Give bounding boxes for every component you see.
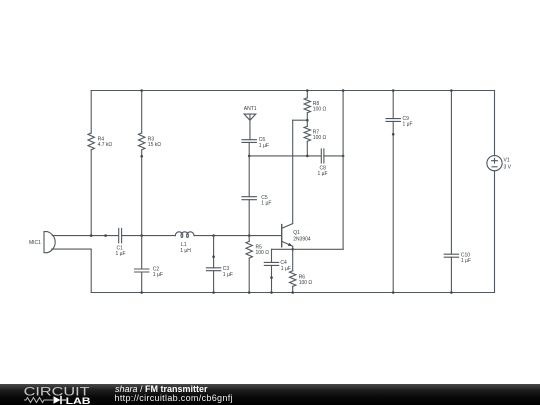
capacitor C1 (119, 228, 122, 242)
wire C3 branch (213, 236, 215, 293)
node L1/C3 junction (212, 234, 215, 237)
resistor R8 (304, 98, 310, 113)
svg-text:1 µF: 1 µF (223, 272, 233, 278)
wire feedback vertical (342, 91, 344, 250)
svg-text:ANT1: ANT1 (244, 106, 257, 112)
node signal/R3 crossing (140, 234, 143, 237)
capacitor C2 (135, 269, 149, 272)
wire C10 branch (450, 91, 452, 293)
node R3 top (140, 89, 143, 92)
svg-text:100 Ω: 100 Ω (256, 250, 270, 256)
wire mic top lead (52, 235, 118, 237)
svg-text:1 µF: 1 µF (259, 143, 269, 149)
svg-text:1 µF: 1 µF (153, 272, 163, 278)
resistor R4 (88, 133, 94, 150)
wire C8 to feedback vertical (324, 155, 343, 157)
svg-text:V1: V1 (504, 158, 510, 164)
wire C9 branch (392, 91, 394, 293)
node C4 bottom pin (270, 276, 273, 279)
wire C1 to L1 (122, 235, 176, 237)
capacitor C10 (444, 254, 458, 257)
wire emitter left to C4 (272, 248, 293, 250)
node feedback top (342, 89, 345, 92)
wire left vertical lower (R4 to mic node) (90, 150, 92, 236)
svg-text:1 µF: 1 µF (261, 200, 271, 206)
node mic top lead / R4 junction (90, 234, 93, 237)
node C9 bottom rail (392, 291, 395, 294)
microphone MIC1 (44, 232, 55, 253)
wire emitter right to feedback vertical (293, 248, 343, 250)
svg-text:LAB: LAB (66, 396, 91, 405)
wire R3 to signal node (141, 150, 143, 236)
svg-text:1 µF: 1 µF (318, 171, 328, 177)
capacitor C8 (321, 149, 324, 163)
node C3 top pin (212, 255, 215, 258)
svg-text:100 Ω: 100 Ω (299, 280, 313, 286)
svg-text:Q1: Q1 (293, 230, 300, 236)
node C6 bottom / bias wire junction (248, 155, 251, 158)
transistor Q1 (282, 224, 293, 250)
node R7 bottom (306, 155, 309, 158)
node C10 bottom rail (450, 291, 453, 294)
wire C6 to C5 (248, 142, 250, 196)
node C3 bottom (212, 291, 215, 294)
circuitlab logo (24, 384, 91, 405)
node C10 top (450, 89, 453, 92)
node R6 bottom (291, 291, 294, 294)
resistor R6 (290, 271, 296, 287)
wire C5 to signal node (248, 200, 250, 236)
svg-text:2N3904: 2N3904 (293, 236, 311, 242)
svg-text:100 Ω: 100 Ω (313, 135, 327, 141)
wire L1 to Q1 base (194, 235, 281, 237)
wire R5 to bottom rail (248, 258, 250, 292)
node emitter junction (291, 248, 294, 251)
node C2 bottom (140, 291, 143, 294)
wire bias rail C6 to C8 (249, 155, 321, 157)
wire collector vertical (292, 120, 294, 223)
wire R7 to bias rail (306, 141, 308, 156)
svg-text:1 µF: 1 µF (281, 266, 291, 272)
node R8 top (306, 89, 309, 92)
wire left vertical upper (top rail to R4) (90, 91, 92, 134)
wire C4 branch (271, 249, 273, 292)
capacitor C3 (206, 268, 220, 271)
wire mic bottom lead (52, 249, 91, 292)
inductor L1 (175, 232, 194, 238)
wire R6 branch (292, 249, 294, 270)
resistor R5 (246, 241, 252, 258)
resistor R7 (304, 126, 310, 141)
svg-text:100 Ω: 100 Ω (313, 107, 327, 113)
wire top rail (91, 90, 494, 92)
svg-text:3 V: 3 V (504, 164, 512, 170)
wire signal node to R5 (248, 236, 250, 242)
wire V1 branch bottom (494, 171, 496, 293)
wire R3 branch top (141, 91, 143, 134)
capacitor C4 (264, 262, 278, 265)
svg-text:1 µF: 1 µF (403, 122, 413, 128)
antenna ANT1 (244, 114, 256, 140)
svg-text:MIC1: MIC1 (29, 240, 41, 246)
svg-text:1 µH: 1 µH (180, 248, 191, 254)
resistor R3 (139, 133, 145, 150)
capacitor C9 (386, 119, 400, 122)
svg-text:1 µF: 1 µF (116, 251, 126, 257)
node R8/R7/collector junction (306, 119, 309, 122)
svg-text:15 kΩ: 15 kΩ (148, 142, 161, 148)
wire bottom rail (91, 292, 494, 294)
node C9 bottom pin (392, 133, 395, 136)
node C8/feedback junction (342, 155, 345, 158)
node signal/C5-R5 junction (248, 234, 251, 237)
wire C2 branch (141, 236, 143, 293)
svg-text:1 µF: 1 µF (461, 258, 471, 264)
capacitor C5 (242, 197, 256, 200)
node mic pin (104, 234, 107, 237)
node R3 bottom pin (140, 155, 143, 158)
voltage source V1 (487, 156, 502, 171)
node C9 top (392, 89, 395, 92)
wire R6 to bottom rail (292, 286, 294, 292)
wire V1 branch top (494, 91, 496, 156)
capacitor C6 (242, 140, 256, 143)
node R5 bottom (248, 291, 251, 294)
wire collector jog (293, 119, 308, 121)
svg-text:4.7 kΩ: 4.7 kΩ (98, 142, 113, 148)
wire R8 branch top (306, 91, 308, 98)
wire R8 to R7 (306, 113, 308, 126)
node C4 bottom rail (270, 291, 273, 294)
